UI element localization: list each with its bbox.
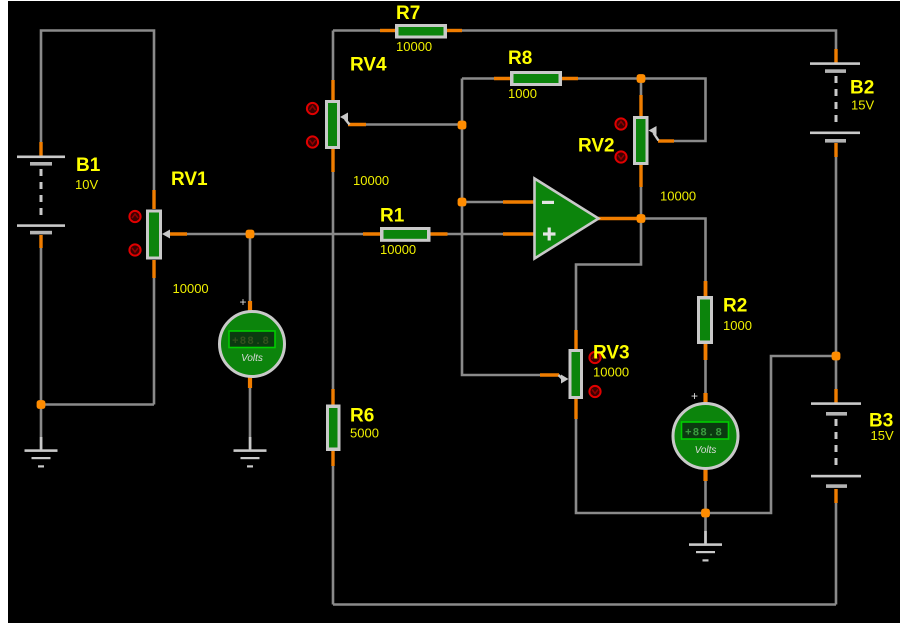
resistor R1 xyxy=(380,227,431,242)
svg-text:+88.8: +88.8 xyxy=(685,428,723,440)
ground (below VM1) xyxy=(234,437,267,468)
junction op-amp output node xyxy=(637,214,646,223)
pin R6 top xyxy=(331,389,334,405)
pin R6 bottom xyxy=(331,450,334,466)
svg-text:10000: 10000 xyxy=(396,39,432,54)
junction node A (RV1 wiper / VM1 / R1) xyxy=(246,230,255,239)
actuator RV3 up xyxy=(589,352,600,363)
resistor R7 xyxy=(395,24,447,39)
wire RV3 bottom down to lower row xyxy=(576,417,706,513)
resistor R6 xyxy=(326,405,341,452)
voltmeter VM1 xyxy=(220,295,285,377)
svg-text:10000: 10000 xyxy=(173,281,209,296)
junction bottom-left (B1 minus / RV1 bottom / ground) xyxy=(37,400,46,409)
pin RV4 bottom xyxy=(331,148,334,172)
potentiometer RV1 xyxy=(146,210,170,260)
svg-text:RV4: RV4 xyxy=(350,55,387,76)
battery B1 xyxy=(17,156,65,235)
pin RV1 bottom xyxy=(152,260,155,278)
pin R1 right xyxy=(430,232,448,235)
potentiometer RV4 xyxy=(325,100,350,149)
svg-text:R6: R6 xyxy=(350,406,374,427)
pin RV3 bottom xyxy=(574,398,577,419)
wire op-amp output to R2 top xyxy=(641,219,706,295)
pin VM1 bottom xyxy=(248,376,252,388)
pin B1 negative xyxy=(39,235,42,248)
svg-text:1000: 1000 xyxy=(723,318,752,333)
pin RV3 top xyxy=(574,330,577,350)
pin RV4 top xyxy=(331,80,334,101)
pin R2 bottom xyxy=(704,343,708,360)
svg-text:+88.8: +88.8 xyxy=(232,336,270,348)
svg-text:1000: 1000 xyxy=(508,86,537,101)
junction R8 right / RV2 top node xyxy=(637,74,646,83)
wire B2 minus to B3 plus right rail xyxy=(835,155,838,391)
pin R1 left xyxy=(363,232,381,235)
junction RV4 wiper on inverting rail xyxy=(458,121,467,130)
pin op-amp output xyxy=(598,217,637,220)
wire R2 bottom to VM2 top xyxy=(704,346,707,404)
wire node A branch down to voltmeter VM1 xyxy=(249,234,252,309)
svg-text:B1: B1 xyxy=(76,155,101,176)
wire RV1 bottom to bottom-left loop xyxy=(153,276,156,405)
wire B3 minus to bottom rail xyxy=(835,502,838,605)
actuator RV3 down xyxy=(589,386,600,397)
junction op-amp minus input node xyxy=(458,198,467,207)
wire VM1 bottom to ground xyxy=(249,379,252,449)
actuator RV2 down xyxy=(615,151,626,162)
pin B1 positive xyxy=(39,142,42,156)
junction B2-B3 midpoint node xyxy=(832,352,841,361)
pin R8 right xyxy=(561,77,578,80)
resistor R8 xyxy=(510,71,562,86)
ground (below VM2) xyxy=(689,531,722,562)
actuator RV1 down xyxy=(129,244,140,255)
pin R7 right xyxy=(446,29,462,32)
svg-text:R7: R7 xyxy=(396,3,420,24)
svg-text:Volts: Volts xyxy=(241,353,263,364)
pin VM2 bottom xyxy=(703,468,707,481)
voltmeter VM2 xyxy=(673,389,738,469)
wire lower row to mid rail junction xyxy=(706,356,837,513)
wire VM2 bottom to ground junction xyxy=(704,472,707,543)
pin R7 left xyxy=(380,29,396,32)
wire B1 minus to ground / bottom-left loop xyxy=(40,246,43,449)
wire R8 row xyxy=(462,77,641,80)
actuator RV4 up xyxy=(307,103,318,114)
wire feedback from output down to RV3 top xyxy=(576,219,641,333)
svg-text:10000: 10000 xyxy=(380,242,416,257)
ground (below B1) xyxy=(25,437,58,468)
actuator RV2 up xyxy=(615,118,626,129)
svg-text:RV1: RV1 xyxy=(171,169,208,190)
pin RV2 wiper xyxy=(658,139,674,142)
wire RV2 wiper loop xyxy=(641,79,706,142)
potentiometer RV3 xyxy=(559,349,584,399)
svg-text:RV2: RV2 xyxy=(578,136,615,157)
actuator RV1 up xyxy=(129,211,140,222)
battery B2 xyxy=(810,62,860,142)
svg-text:10000: 10000 xyxy=(353,173,389,188)
svg-text:Volts: Volts xyxy=(695,445,717,456)
wire RV4 R6 vertical rail xyxy=(332,31,335,605)
wire bottom rail xyxy=(333,603,836,606)
pin B2 positive xyxy=(834,49,837,63)
pin VM1 top xyxy=(248,301,252,312)
wire bottom-left horizontal xyxy=(41,403,154,406)
svg-text:R1: R1 xyxy=(380,206,405,227)
battery B3 xyxy=(811,402,861,488)
actuator RV4 down xyxy=(307,136,318,147)
wire RV2 vertical branch xyxy=(640,79,643,219)
wire op-amp minus input xyxy=(462,201,534,204)
svg-text:5000: 5000 xyxy=(350,426,379,441)
pin RV4 wiper xyxy=(348,123,366,126)
svg-text:10V: 10V xyxy=(75,177,98,192)
pin B3 positive xyxy=(834,389,837,403)
svg-text:15V: 15V xyxy=(871,428,894,443)
pin op-amp plus input xyxy=(503,232,534,235)
wire top rail to R7 and B2 plus xyxy=(333,31,836,63)
pin op-amp minus input xyxy=(503,200,534,203)
wire B1 plus to RV1 top (top-left loop) xyxy=(41,31,154,193)
wire main input row RV1 wiper to op-amp plus input xyxy=(170,233,534,236)
pin R2 top xyxy=(704,281,708,297)
svg-text:10000: 10000 xyxy=(593,365,629,380)
pin B2 negative xyxy=(834,143,837,157)
pin RV2 bottom xyxy=(639,164,642,187)
wire inverting rail from R8 left down to RV3 wiper xyxy=(462,79,558,376)
pin B3 negative xyxy=(834,489,837,503)
pin RV3 wiper xyxy=(540,373,559,376)
potentiometer RV2 xyxy=(633,116,659,165)
pin VM2 top xyxy=(703,393,707,404)
pin R8 left xyxy=(494,77,511,80)
svg-text:B2: B2 xyxy=(850,78,874,99)
svg-text:15V: 15V xyxy=(851,98,874,113)
wire RV4 wiper to inverting rail xyxy=(364,123,462,126)
resistor R2 xyxy=(697,296,713,344)
svg-text:+: + xyxy=(691,389,698,403)
svg-text:R2: R2 xyxy=(723,296,747,317)
svg-text:RV3: RV3 xyxy=(593,343,630,364)
op-amp U1 xyxy=(535,179,599,259)
junction VM2 minus / ground node xyxy=(701,509,710,518)
svg-text:R8: R8 xyxy=(508,48,532,69)
pin RV2 top xyxy=(639,95,642,117)
svg-text:10000: 10000 xyxy=(660,189,696,204)
pin RV1 top xyxy=(152,190,155,209)
pin RV1 wiper xyxy=(169,232,187,235)
svg-text:+: + xyxy=(239,295,246,309)
